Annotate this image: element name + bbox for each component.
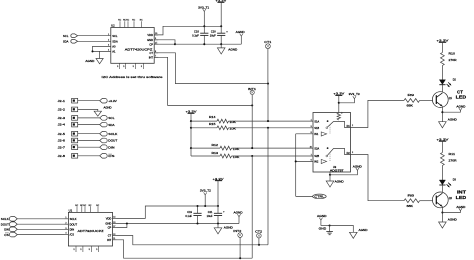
wire SCL flag to U2 pin 1 [78, 35, 111, 37]
svg-text:SCL: SCL [112, 34, 118, 38]
net flag +3.3V (J2-1) [100, 98, 117, 103]
svg-text:SCL: SCL [63, 34, 69, 38]
net flag SDA (input to U2) [63, 39, 78, 43]
wire row1 left [191, 120, 217, 122]
wire Q2 emitter down [441, 207, 443, 222]
capacitor C21 10uF [207, 206, 226, 224]
net flag DIN (J2-7) [100, 145, 115, 150]
wire CS tag to U1 [17, 234, 64, 236]
junction +3.3V on rail [220, 25, 222, 27]
switch section 1 (S1A/S1B to D1) with IN1 buffer [321, 120, 350, 136]
svg-text:3V3_T3: 3V3_T3 [349, 92, 361, 96]
label R10 [449, 51, 456, 55]
net flag 3V3_T2 [200, 189, 212, 206]
junction CT1 column [267, 83, 269, 85]
svg-text:CS: CS [4, 233, 9, 237]
svg-text:CP: CP [108, 226, 112, 230]
node INT2 test point [233, 229, 242, 258]
svg-text:DIN: DIN [4, 228, 9, 232]
net flag AGND (right of U2 rail) [236, 30, 245, 44]
wire U1 VDD to rail [117, 206, 219, 218]
wire row2 left [191, 127, 217, 129]
resistor R8 68K (Q2 base) [404, 193, 420, 208]
ground AGND (U2 address pins) [85, 59, 103, 64]
svg-text:+3.3V: +3.3V [186, 110, 197, 114]
svg-text:DOUT: DOUT [1, 222, 9, 226]
node CT2 test point [255, 230, 263, 245]
junction pull-up rail row2 [190, 127, 192, 129]
svg-text:10uF: 10uF [207, 214, 213, 218]
net flag SCL (input to U2) [63, 34, 78, 38]
wire U2 VDD to +3.3V rail [154, 26, 221, 35]
wire AGND flag to tie junction [321, 225, 330, 227]
wire DIN tag to U1 [17, 228, 64, 230]
svg-text:INT: INT [457, 190, 466, 195]
svg-text:AGND: AGND [224, 226, 233, 230]
svg-text:CTRL: CTRL [314, 195, 325, 199]
wire U2 CP pin join [154, 43, 175, 45]
svg-text:CT2: CT2 [255, 230, 263, 234]
svg-text:R12: R12 [212, 143, 219, 147]
svg-text:+3.3V: +3.3V [215, 0, 226, 3]
svg-text:AGND: AGND [104, 106, 112, 110]
svg-text:I2C Address is set thru softwa: I2C Address is set thru software [102, 75, 163, 79]
svg-text:INT: INT [107, 238, 112, 242]
junction C18 to ground rail [203, 43, 205, 45]
junction C19 top [196, 205, 198, 207]
svg-text:SCLK: SCLK [108, 132, 117, 136]
wire J2-7 to net tag [78, 146, 100, 148]
net flag DIN (U1 input) [4, 227, 17, 232]
wire U1 INT column up to S2B [251, 156, 253, 258]
svg-text:INT: INT [149, 55, 154, 59]
junction row1 CT column [267, 120, 269, 122]
IC U3 ADG787 dual SPDT switch [310, 113, 354, 173]
svg-text:GND: GND [319, 227, 327, 231]
svg-text:A1: A1 [112, 50, 116, 54]
wire U1 CP pin join [117, 224, 127, 228]
connector pin J2-5 [58, 131, 78, 136]
connector pin J2-4 [58, 122, 78, 127]
svg-text:DOUT: DOUT [108, 139, 117, 143]
note: I2C address note [102, 75, 163, 79]
junction C21 bottom [217, 222, 219, 224]
junction row4 INT2 column [251, 155, 253, 157]
wire SCLK tag to U1 [17, 218, 64, 220]
node CT1 test point [264, 40, 272, 84]
svg-text:R8: R8 [408, 193, 415, 197]
junction CT2 stem [258, 244, 260, 246]
svg-text:ADG787: ADG787 [330, 168, 344, 172]
junction pull-up rail row1 [190, 120, 192, 122]
svg-text:R10: R10 [449, 51, 456, 55]
wire J2-3 to net tag [78, 117, 100, 119]
junction row3 INT column [251, 147, 253, 149]
ground AGND (Q1) [439, 117, 457, 127]
svg-text:SCLK: SCLK [1, 217, 9, 221]
wire CT1 column down to S1A row [267, 84, 269, 122]
net flag AGND (Q2 emitter) [442, 205, 465, 213]
svg-text:U2: U2 [111, 24, 115, 28]
svg-text:VDD: VDD [147, 33, 153, 37]
svg-text:A0: A0 [112, 45, 116, 49]
capacitor C19 0.1uF [185, 206, 201, 224]
junction Q2 emitter node [441, 211, 443, 213]
svg-text:SCL: SCL [108, 116, 115, 120]
svg-text:AGND: AGND [448, 117, 457, 121]
junction Q1 emitter node [441, 111, 443, 113]
net flag SCL (J2-3) [100, 116, 115, 121]
junction INT2 stem [239, 257, 241, 259]
label CT LED line2 [456, 95, 467, 100]
svg-text:+3.3V: +3.3V [213, 177, 224, 181]
svg-text:S2B: S2B [314, 154, 319, 158]
wire INT1 column down to S2A row [251, 105, 253, 148]
svg-text:SDA: SDA [63, 39, 69, 43]
connector pin J2-3 [58, 116, 78, 121]
svg-text:GND: GND [105, 222, 111, 226]
svg-text:AGND: AGND [456, 205, 465, 209]
net flag DOUT (U1 input) [1, 222, 17, 227]
svg-text:68K: 68K [407, 204, 414, 208]
svg-text:CS: CS [108, 154, 115, 158]
svg-text:INT2: INT2 [233, 229, 242, 233]
svg-text:270R: 270R [449, 58, 457, 62]
svg-text:AGND: AGND [448, 218, 457, 222]
svg-text:J2-5: J2-5 [58, 132, 66, 136]
svg-text:J2-8: J2-8 [58, 154, 66, 158]
svg-text:S1A: S1A [314, 119, 319, 123]
svg-text:INT1: INT1 [248, 87, 257, 91]
svg-text:R13: R13 [212, 151, 219, 155]
connector pin J2-6 [58, 138, 78, 143]
svg-text:SDA: SDA [112, 39, 118, 43]
value 270R [449, 58, 457, 62]
connector pin J2-2 [58, 107, 78, 112]
svg-text:J2-2: J2-2 [58, 108, 66, 112]
svg-text:AGND: AGND [359, 228, 368, 232]
wire R11 to LED D3 [441, 166, 443, 181]
svg-text:C20: C20 [211, 30, 216, 34]
net flag AGND (ground tie) [317, 214, 327, 225]
wire row4 right to S2B [232, 155, 314, 157]
svg-text:C19: C19 [187, 210, 192, 214]
net flag SDA (J2-4) [100, 122, 115, 127]
svg-text:270R: 270R [449, 158, 457, 162]
LED D2 (CT indicator) [439, 78, 456, 86]
junction IN2 tap [295, 160, 297, 162]
wire U2 INT route [154, 57, 252, 105]
svg-text:+3.3V: +3.3V [436, 39, 448, 43]
wire row1 right to S1A [229, 120, 314, 122]
svg-text:ADT7420UCPZ: ADT7420UCPZ [125, 47, 153, 51]
resistor R12 10K (S2A pull-up) [212, 143, 240, 151]
net flag CTRL (switch control) [296, 194, 327, 199]
wire LED D2 to Q1 collector [441, 85, 443, 93]
power +3.3V (INT LED) [436, 137, 448, 152]
wire row3 left [191, 147, 220, 149]
wire U1 CT route [117, 236, 269, 245]
label R11 [449, 152, 456, 156]
svg-text:S2A: S2A [314, 146, 319, 150]
svg-text:R11: R11 [449, 152, 456, 156]
svg-text:CT: CT [149, 51, 153, 55]
wire DOUT tag to U1 [17, 223, 64, 225]
wire R9 to Q1 base [420, 99, 433, 101]
svg-text:AGND: AGND [85, 59, 94, 63]
resistor R13 10K (S2B pull-up) [212, 151, 240, 159]
junction ground tie [329, 224, 331, 226]
label INT LED line1 [457, 190, 466, 195]
svg-text:J2-1: J2-1 [58, 99, 66, 103]
switch section 2 (S2A/S2B to D2) with IN2 buffer [321, 147, 350, 163]
svg-text:J2-6: J2-6 [58, 139, 66, 143]
svg-text:C18: C18 [194, 30, 199, 34]
svg-text:AGND: AGND [456, 105, 465, 109]
resistor R11 270R [441, 153, 445, 166]
wire row3 right to S2A [232, 147, 314, 149]
capacitor C20 10uF [210, 26, 229, 44]
net flag AGND (U3) [330, 164, 362, 174]
junction INT1 stem [251, 104, 253, 106]
svg-text:ADT7320UCPZ: ADT7320UCPZ [78, 229, 104, 233]
junction GND/CP tie [174, 43, 176, 45]
resistor R10 270R [441, 53, 445, 66]
transistor Q1 (NPN, CT LED driver) [432, 92, 452, 108]
label CT LED line1 [457, 89, 463, 94]
wire row4 left [191, 155, 220, 157]
wire IN1 row [296, 133, 313, 135]
svg-text:AGND: AGND [228, 48, 237, 52]
svg-text:GND: GND [147, 38, 153, 42]
svg-text:S1B: S1B [314, 126, 319, 130]
wire IN2 row [296, 160, 313, 162]
net flag CS (U1 input) [4, 232, 17, 237]
power +3.3V (U2 rail) [215, 0, 226, 26]
LED D3 (INT indicator) [439, 179, 456, 187]
wire U2 CT to switch column [154, 53, 268, 84]
ground AGND (tie right) [330, 226, 368, 239]
net flag SCLK (J2-5) [100, 131, 118, 136]
svg-text:10K: 10K [230, 127, 237, 131]
junction A0/A1 tie [91, 50, 93, 52]
wire ground stem down [99, 51, 101, 58]
wire R10 to LED D2 [441, 66, 443, 80]
svg-text:CT: CT [108, 234, 112, 238]
wire SDA flag to U2 pin 2 [78, 40, 111, 42]
svg-text:IN2: IN2 [314, 160, 319, 164]
svg-text:DIN: DIN [70, 227, 75, 231]
ground AGND (U3) [326, 175, 344, 187]
net flag DOUT (J2-6) [100, 138, 118, 143]
wire U1 GND rail [117, 223, 240, 225]
junction C19 bottom [196, 222, 198, 224]
connector pin J2-7 [58, 145, 78, 150]
net flag 3V3_T1 [198, 6, 210, 27]
junction U3 ground tie [329, 174, 331, 176]
connector pin J2-8 [58, 154, 78, 159]
wire IN1/IN2 control column [295, 134, 297, 197]
junction 3V3_T2 on rail [204, 205, 206, 207]
svg-text:+3.3V: +3.3V [333, 92, 344, 96]
junction pull-up rail row3 [190, 147, 192, 149]
svg-text:68K: 68K [407, 104, 414, 108]
wire D1 to Q1 base [351, 100, 405, 127]
svg-text:AGND: AGND [317, 214, 327, 218]
wire U2 ground rail [175, 43, 241, 45]
resistor R15 10K (S1B pull-up) [209, 122, 236, 131]
svg-text:0.1uF: 0.1uF [185, 214, 192, 218]
wire J2-2 to ground [78, 109, 98, 111]
svg-text:IN1: IN1 [314, 132, 319, 136]
net flag CS (J2-8) [100, 154, 115, 159]
wire U2 GND pin to ground rail [154, 40, 175, 44]
svg-text:VDD: VDD [106, 217, 112, 221]
svg-text:LED: LED [456, 95, 467, 100]
wire R8 to Q2 base [420, 200, 433, 202]
svg-text:+3.3V: +3.3V [108, 99, 117, 103]
junction 3V3_T3 tap [338, 102, 340, 104]
svg-text:U1: U1 [69, 208, 73, 212]
wire J2-8 to net tag [78, 155, 100, 157]
svg-text:AGND: AGND [335, 180, 344, 184]
wire J2-5 to net tag [78, 133, 100, 135]
connector pin J2-1 [58, 98, 78, 103]
resistor R14 10K (S1A pull-up) [209, 115, 236, 124]
wire J2-4 to net tag [78, 124, 100, 126]
svg-text:J2-4: J2-4 [58, 123, 66, 127]
junction +3.3V on U1 rail [217, 205, 219, 207]
svg-text:CP: CP [149, 42, 153, 46]
svg-text:AGND: AGND [236, 30, 245, 34]
svg-text:SDA: SDA [108, 123, 114, 127]
svg-text:DOUT: DOUT [70, 222, 78, 226]
svg-text:R15: R15 [209, 122, 216, 126]
net flag 3V3_T3 [339, 92, 360, 103]
net flag SCLK (U1 input) [1, 217, 17, 222]
svg-text:0.1uF: 0.1uF [192, 34, 199, 38]
svg-text:R9: R9 [408, 93, 415, 97]
svg-text:R14: R14 [209, 115, 216, 119]
svg-text:CT: CT [457, 89, 463, 94]
wire D2 to Q2 base [351, 155, 405, 201]
svg-text:10K: 10K [230, 120, 237, 124]
svg-text:CT1: CT1 [264, 40, 272, 44]
svg-text:J2-7: J2-7 [58, 145, 66, 149]
ground AGND (U1 decoupling) [214, 224, 233, 234]
value 270R (R11) [449, 158, 457, 162]
wire U3 GND pin down [329, 172, 331, 175]
wire row2 right to S1B [229, 127, 314, 129]
svg-text:LED: LED [456, 195, 467, 200]
U3 VDD pin entry (pin 2) [337, 113, 343, 121]
net flag AGND (right of U1 rail) [234, 211, 243, 224]
svg-text:J2-3: J2-3 [58, 116, 66, 120]
svg-text:AGND: AGND [234, 211, 243, 215]
net flag AGND (Q1 emitter) [442, 105, 465, 113]
junction 3V3_T1 on rail [203, 25, 205, 27]
transistor Q2 (NPN, INT LED driver) [432, 192, 452, 208]
wire U1 CT column up to S1B [267, 128, 269, 245]
svg-text:DIN: DIN [108, 145, 114, 149]
wire U1 INT route [117, 240, 253, 258]
svg-text:SCLK: SCLK [70, 217, 77, 221]
ground AGND (J2-2) [94, 106, 111, 117]
wire J2-1 to +3.3V flag [78, 100, 100, 102]
junction U1 GND/EP tie [126, 222, 128, 224]
svg-text:10uF: 10uF [210, 34, 216, 38]
resistor R9 68K (Q1 base) [404, 93, 420, 108]
power +3.3V (U3 VDD) [333, 92, 344, 113]
svg-text:3V3_T1: 3V3_T1 [198, 6, 210, 10]
ground AGND (Q2) [439, 218, 457, 228]
svg-text:C21: C21 [208, 210, 213, 214]
power +3.3V (pull-up rail) [186, 110, 197, 157]
wire U2 A0 to ground stem [93, 46, 111, 51]
junction row2 CT2 column [267, 127, 269, 129]
ground AGND (U2 decoupling) [217, 44, 237, 54]
wire U2 A1 to ground stem [93, 50, 111, 52]
svg-text:/CS: /CS [70, 233, 75, 237]
IC U2 ADT7420UCPZ temperature sensor (I2C) [108, 20, 158, 69]
power +3.3V (CT LED) [436, 39, 448, 53]
svg-text:3V3_T2: 3V3_T2 [200, 189, 212, 193]
power +3.3V (U1 rail) [213, 177, 224, 206]
wire LED D3 to Q2 collector [441, 185, 443, 193]
wire J2-6 to net tag [78, 140, 100, 142]
label INT LED line2 [456, 195, 467, 200]
junction C20 to ground rail [220, 43, 222, 45]
wire Q1 emitter down [441, 107, 443, 122]
svg-text:+3.3V: +3.3V [436, 137, 448, 141]
ground GND (earth symbol) [319, 226, 333, 235]
node INT1 test point [248, 87, 257, 105]
capacitor C18 0.1uF [192, 26, 208, 44]
IC U1 ADT7320UCPZ temperature sensor (SPI) [65, 205, 117, 252]
svg-text:AGND: AGND [353, 164, 362, 168]
